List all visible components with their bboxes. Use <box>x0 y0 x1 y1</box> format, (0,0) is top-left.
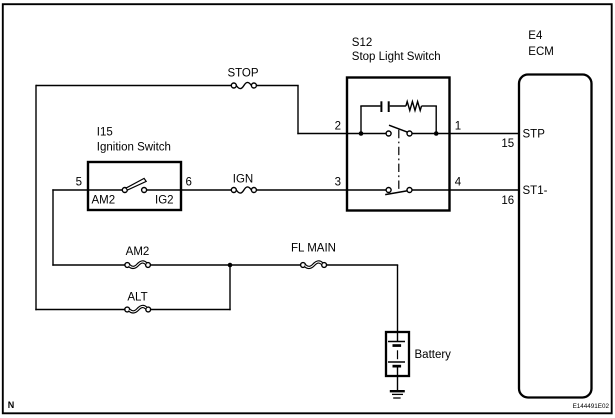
svg-text:E144491E02: E144491E02 <box>573 403 610 410</box>
wire: ALT feed from left bus <box>35 309 125 311</box>
wire: branch top right segment <box>422 105 437 107</box>
left vertical bus (STOP to ALT) <box>35 85 37 310</box>
wire: branch left vertical <box>360 106 362 134</box>
fusible link AM2 <box>125 262 151 268</box>
svg-text:Ignition Switch: Ignition Switch <box>97 141 171 153</box>
svg-text:Battery: Battery <box>415 349 452 361</box>
wire: battery bottom lead <box>397 367 399 390</box>
switch S12 upper lever <box>389 125 408 132</box>
wire: pin2 junction to upper contact <box>361 133 386 135</box>
svg-text:3: 3 <box>335 176 341 188</box>
wire: upper contact to pin 1 junction <box>412 133 436 135</box>
wire: vertical drop to S12 pin 2 <box>297 86 299 135</box>
switch I15 lever <box>126 178 146 190</box>
svg-text:N: N <box>8 400 15 410</box>
node: S12 right junction <box>434 131 439 136</box>
capacitor in S12 <box>381 101 388 112</box>
ground symbol <box>390 391 405 398</box>
wire: battery top lead <box>397 332 399 342</box>
wire: branch middle segment <box>390 105 406 107</box>
svg-text:S12: S12 <box>352 37 372 49</box>
svg-text:1: 1 <box>455 120 461 132</box>
svg-text:ECM: ECM <box>528 46 554 58</box>
wire: junction down to ALT <box>229 264 231 310</box>
svg-text:ALT: ALT <box>127 292 147 304</box>
svg-text:FL MAIN: FL MAIN <box>291 243 336 255</box>
switch I15 contacts <box>122 178 146 192</box>
svg-text:AM2: AM2 <box>126 246 150 258</box>
wire: branch right vertical <box>435 106 437 134</box>
wire: ALT fuse to junction riser <box>151 309 231 311</box>
svg-text:STOP: STOP <box>227 68 258 80</box>
switch S12 lower lever <box>385 191 407 195</box>
svg-text:16: 16 <box>501 195 514 207</box>
switch S12 upper contacts <box>386 125 412 136</box>
node: AM2 / FL MAIN junction <box>228 263 233 268</box>
fusible link FL MAIN <box>301 262 327 268</box>
wire: IGN fuse to S12 pin 3 <box>256 189 386 191</box>
fuse IGN <box>231 187 256 193</box>
svg-text:4: 4 <box>455 176 462 188</box>
svg-text:IGN: IGN <box>233 174 253 186</box>
svg-text:I15: I15 <box>97 126 113 138</box>
svg-text:6: 6 <box>186 176 192 188</box>
dash-dot link between S12 contacts <box>398 130 400 192</box>
wire: STOP feed horizontal from left bus <box>36 85 232 87</box>
stop light switch S12 box <box>347 78 450 211</box>
resistor in S12 <box>406 102 422 111</box>
battery box <box>386 332 409 376</box>
ignition switch I15 box <box>88 162 181 210</box>
svg-text:2: 2 <box>335 120 341 132</box>
battery cell 2 negative plate <box>393 365 402 368</box>
wire: FL MAIN to battery corner <box>327 264 399 266</box>
wire: battery drop vertical <box>397 265 399 333</box>
svg-text:5: 5 <box>76 176 82 188</box>
svg-text:ST1-: ST1- <box>523 185 548 197</box>
svg-text:STP: STP <box>523 129 546 141</box>
wire: pin 4 to ECM ST1- <box>412 189 520 191</box>
wire: into S12 pin 2 <box>297 133 361 135</box>
svg-text:IG2: IG2 <box>155 194 174 206</box>
wire: STOP fuse to corner <box>256 85 298 87</box>
fusible link ALT <box>125 306 151 312</box>
svg-text:AM2: AM2 <box>92 194 116 206</box>
svg-text:E4: E4 <box>528 30 543 42</box>
wire: left bus 2 vertical (pin5 to AM2) <box>52 189 54 265</box>
battery cell dash link <box>397 350 399 359</box>
wire: junction to FL MAIN <box>230 264 301 266</box>
battery cell 2 positive plate <box>388 361 405 363</box>
node: S12 left junction <box>359 131 364 136</box>
fuse STOP <box>231 82 256 88</box>
wire: pin 1 to ECM STP <box>436 133 519 135</box>
svg-text:15: 15 <box>501 138 514 150</box>
wire: AM2 fuse to junction <box>150 264 230 266</box>
battery cell 1 negative plate <box>393 344 402 347</box>
ECM E4 connector box <box>519 75 592 398</box>
wire: pin 6 to IGN fuse <box>147 189 232 191</box>
wire: AM2 feed <box>52 264 125 266</box>
battery cell 1 positive plate <box>388 341 405 343</box>
switch S12 lower contacts <box>385 188 412 195</box>
wire: branch top left segment <box>360 105 380 107</box>
wire: pin 5 feed into I15 <box>52 189 123 191</box>
svg-text:Stop Light Switch: Stop Light Switch <box>352 51 441 63</box>
